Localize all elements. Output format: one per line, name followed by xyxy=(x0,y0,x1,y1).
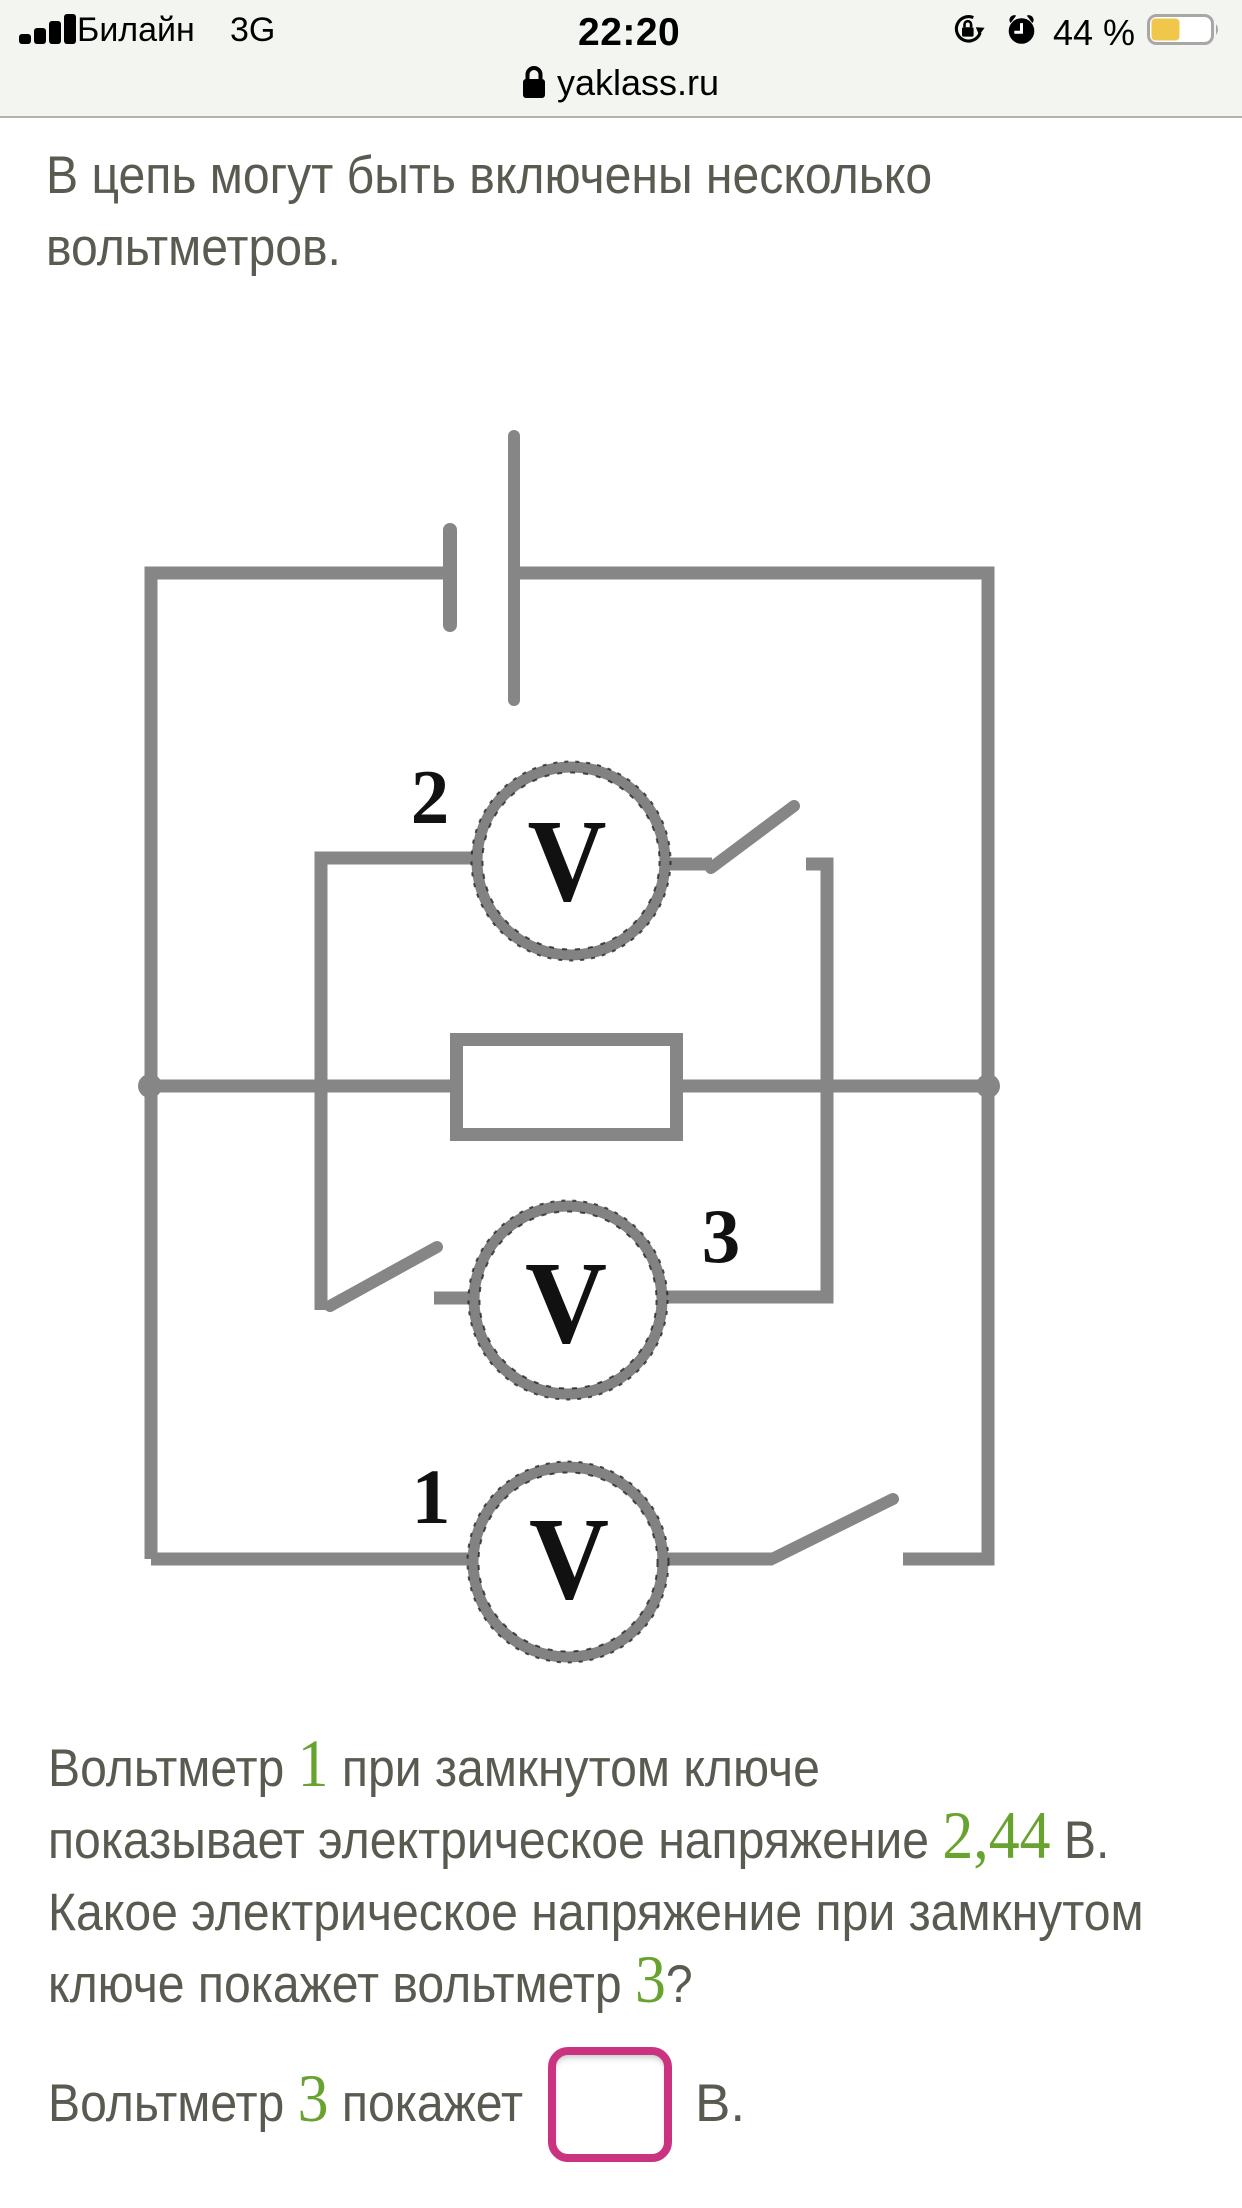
alarm clock icon xyxy=(1006,14,1038,46)
switch S2 right contact and right branch down to V3 right wire xyxy=(664,864,827,1297)
circuit schematic xyxy=(0,380,1242,1700)
question paragraph xyxy=(48,1742,898,1795)
wire: top-right from battery plus plate to right rail down to bottom stub xyxy=(519,573,988,1559)
url bar: lock + yaklass.ru xyxy=(521,64,547,100)
svg-text:1: 1 xyxy=(412,1453,451,1540)
switch S1 blade (open) xyxy=(772,1499,893,1559)
wire: middle node row xyxy=(151,1080,988,1093)
wire: voltmeter1 right stub xyxy=(662,1553,773,1566)
battery icon xyxy=(1147,14,1221,45)
wire: voltmeter3 left stub xyxy=(434,1292,476,1305)
svg-text:V: V xyxy=(525,1237,607,1368)
signal strength bars xyxy=(17,12,79,46)
svg-text:2: 2 xyxy=(411,754,450,840)
voltmeter V1 xyxy=(468,1462,669,1663)
wire: top-left from battery minus plate to left rail and down to bottom rail xyxy=(151,573,444,1559)
svg-text:V: V xyxy=(528,795,607,926)
svg-text:3: 3 xyxy=(702,1193,741,1279)
svg-text:V: V xyxy=(529,1493,609,1624)
battery percent xyxy=(1053,12,1135,54)
answer row xyxy=(48,2077,571,2130)
carrier name xyxy=(77,11,195,50)
voltmeter V2 xyxy=(472,762,671,961)
wire: bottom rail left to voltmeter1 xyxy=(151,1553,474,1566)
switch S2 blade (open) xyxy=(711,806,794,868)
switch S3 blade (open) xyxy=(330,1247,437,1306)
iOS status bar xyxy=(0,0,1242,116)
wire: voltmeter2 left branch xyxy=(321,858,477,1310)
resistor R xyxy=(457,1040,677,1135)
clock 22:20 xyxy=(578,11,680,55)
answer input box xyxy=(548,2047,672,2162)
wire: voltmeter2 right stub xyxy=(665,858,712,871)
network 3G xyxy=(230,11,275,50)
intro paragraph xyxy=(46,149,1022,202)
voltmeter V3 xyxy=(469,1201,668,1400)
battery short plate (negative) xyxy=(443,530,457,625)
battery long plate (positive) xyxy=(508,436,520,700)
junction dot right xyxy=(976,1074,1000,1098)
junction dot left xyxy=(138,1074,162,1098)
rotation lock icon xyxy=(952,14,988,47)
